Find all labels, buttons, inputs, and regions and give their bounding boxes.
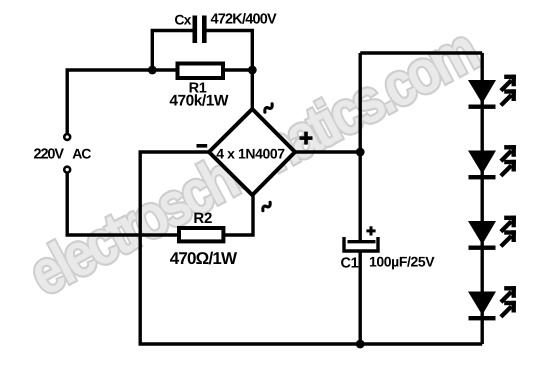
svg-text:AC: AC bbox=[72, 146, 91, 162]
svg-text:472K/400V: 472K/400V bbox=[211, 12, 277, 28]
svg-text:C1: C1 bbox=[341, 256, 359, 272]
svg-text:220V: 220V bbox=[34, 147, 65, 163]
svg-text:470k/1W: 470k/1W bbox=[169, 93, 228, 110]
svg-text:Cx: Cx bbox=[174, 12, 191, 28]
svg-text:100µF/25V: 100µF/25V bbox=[369, 254, 435, 270]
svg-text:R2: R2 bbox=[193, 210, 212, 227]
svg-text:470Ω/1W: 470Ω/1W bbox=[170, 249, 238, 268]
svg-text:4 x 1N4007: 4 x 1N4007 bbox=[216, 146, 285, 162]
